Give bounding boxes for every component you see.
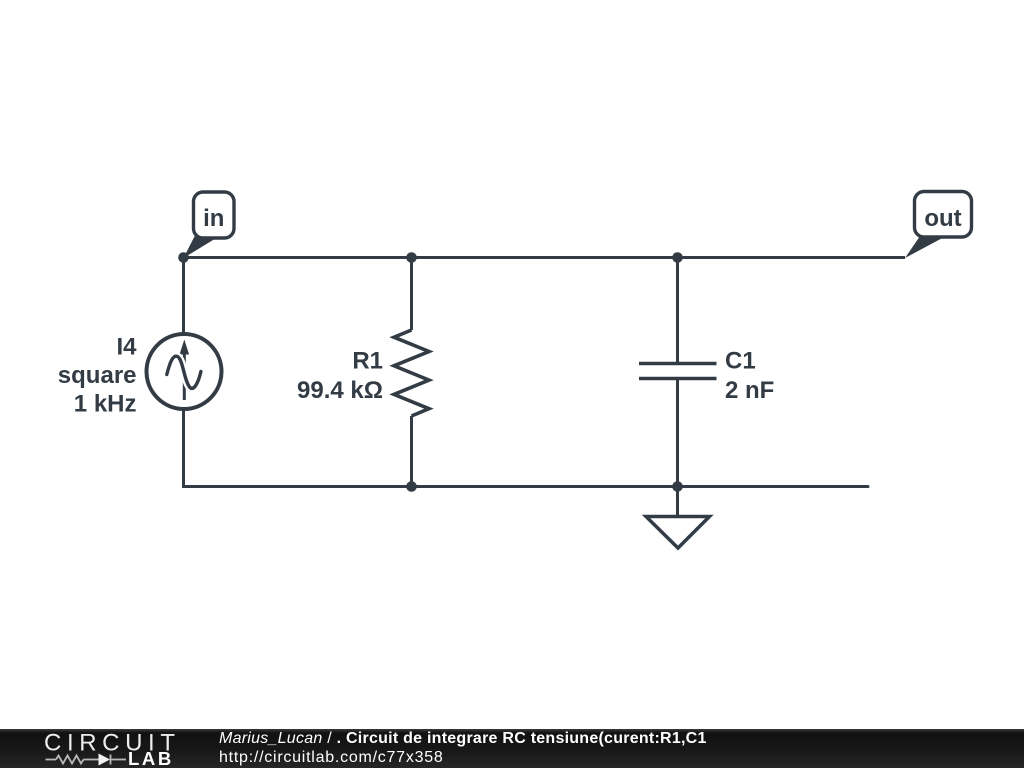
- current source I4 sine wave: [167, 356, 201, 388]
- svg-text:square: square: [58, 362, 137, 389]
- svg-text:2 nF: 2 nF: [725, 377, 774, 404]
- logo resistor-diode glyph: [46, 755, 127, 765]
- current source I4 circle: [147, 334, 222, 409]
- footer text: [219, 729, 707, 767]
- resistor R1 zigzag: [394, 330, 429, 416]
- wire left vertical lower: [182, 408, 185, 488]
- wire ground stem: [676, 487, 679, 517]
- svg-text:in: in: [203, 205, 224, 232]
- wire R1 top lead: [410, 258, 413, 331]
- current source I4 arrow shaft: [183, 348, 186, 400]
- wire R1 bottom lead: [410, 416, 413, 487]
- svg-text:R1: R1: [352, 347, 383, 374]
- current source I4 arrow head: [180, 340, 190, 355]
- node dot C1 bottom / ground: [672, 481, 683, 492]
- svg-text:out: out: [924, 205, 961, 232]
- logo diode triangle: [99, 754, 111, 766]
- CircuitLab logo: [0, 729, 200, 768]
- footer bar: [0, 729, 1024, 768]
- node dot at in: [178, 252, 189, 263]
- flag out box: [915, 192, 972, 238]
- flag in tail: [184, 233, 216, 259]
- current source I4 sine halo: [167, 356, 201, 388]
- svg-text:I4: I4: [116, 333, 137, 360]
- node dot R1 top: [406, 252, 417, 263]
- flag out tail: [905, 233, 942, 259]
- wire bottom rail: [184, 485, 869, 488]
- node dot C1 top: [672, 252, 683, 263]
- svg-text:LAB: LAB: [128, 748, 174, 768]
- capacitor C1 top plate: [639, 362, 717, 366]
- wire C1 top lead: [676, 258, 679, 364]
- wire left vertical upper: [182, 258, 185, 337]
- capacitor C1 bottom plate: [639, 377, 717, 381]
- svg-text:99.4 kΩ: 99.4 kΩ: [297, 377, 383, 404]
- node dot R1 bottom: [406, 481, 417, 492]
- wire top rail in-to-out: [184, 256, 906, 259]
- svg-text:C1: C1: [725, 347, 756, 374]
- svg-text:1 kHz: 1 kHz: [74, 391, 137, 418]
- flag in box: [194, 192, 235, 238]
- ground symbol: [646, 517, 710, 549]
- wire C1 bottom lead: [676, 379, 679, 487]
